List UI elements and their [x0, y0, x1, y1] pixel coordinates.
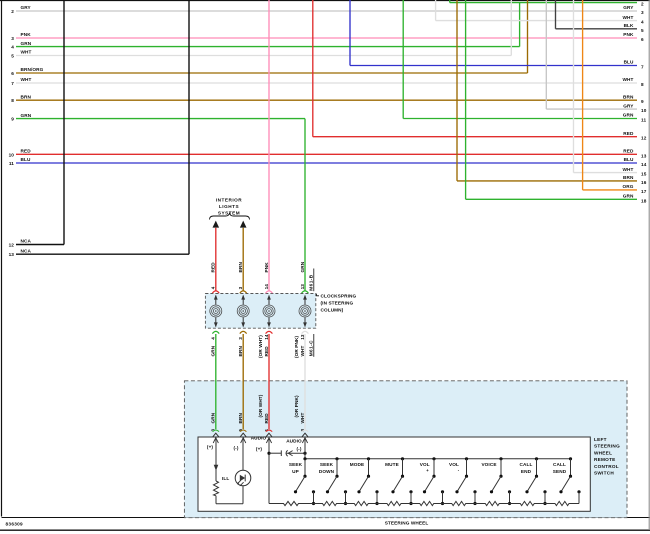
svg-text:VOICE: VOICE — [481, 462, 496, 467]
svg-text:5: 5 — [641, 28, 644, 33]
svg-text:BLU: BLU — [624, 157, 634, 162]
svg-text:GRN: GRN — [21, 41, 32, 46]
svg-text:2: 2 — [11, 9, 14, 14]
svg-text:GRY: GRY — [623, 5, 634, 10]
svg-text:BRN: BRN — [238, 413, 243, 424]
svg-text:ORG: ORG — [623, 184, 634, 189]
svg-text:MUTE: MUTE — [385, 462, 399, 467]
svg-text:SEEK: SEEK — [320, 462, 334, 467]
svg-text:8: 8 — [641, 82, 644, 87]
svg-text:(OR PNK): (OR PNK) — [294, 395, 299, 417]
svg-text:GRN: GRN — [21, 113, 32, 118]
svg-text:8: 8 — [11, 98, 14, 103]
svg-text:(OR PNK): (OR PNK) — [294, 336, 299, 358]
svg-text:836309: 836309 — [6, 521, 24, 526]
svg-text:GRY: GRY — [623, 103, 634, 108]
svg-text:10: 10 — [641, 108, 647, 113]
svg-text:(-): (-) — [234, 445, 239, 450]
svg-text:BRN/ORG: BRN/ORG — [21, 67, 44, 72]
svg-text:11: 11 — [641, 118, 646, 123]
svg-text:PNK: PNK — [623, 32, 634, 37]
svg-text:3: 3 — [238, 337, 243, 340]
svg-text:2: 2 — [641, 2, 644, 7]
svg-text:BLK: BLK — [624, 23, 634, 28]
svg-text:BRN: BRN — [21, 94, 32, 99]
svg-text:3: 3 — [238, 286, 243, 289]
svg-text:VOL: VOL — [420, 462, 430, 467]
svg-text:STEERING: STEERING — [594, 444, 620, 449]
svg-text:(OR WHT): (OR WHT) — [258, 335, 263, 358]
svg-text:CALL: CALL — [553, 462, 566, 467]
svg-text:GRN: GRN — [211, 345, 216, 356]
svg-text:4: 4 — [11, 45, 14, 50]
svg-text:3: 3 — [641, 10, 644, 15]
svg-text:(OR WHT): (OR WHT) — [258, 394, 263, 417]
svg-text:WHT: WHT — [300, 345, 305, 356]
svg-text:9: 9 — [641, 99, 644, 104]
svg-text:BLU: BLU — [624, 60, 634, 65]
svg-text:(+): (+) — [256, 446, 262, 451]
svg-text:DOWN: DOWN — [319, 469, 335, 474]
svg-text:RED: RED — [623, 131, 634, 136]
svg-text:RED: RED — [623, 149, 634, 154]
svg-text:WHT: WHT — [300, 412, 305, 423]
svg-text:14: 14 — [641, 162, 647, 167]
svg-text:WHT: WHT — [623, 167, 634, 172]
svg-text:REMOTE: REMOTE — [594, 457, 616, 462]
svg-text:RED: RED — [264, 413, 269, 424]
svg-text:GRY: GRY — [21, 5, 32, 10]
svg-text:ILL: ILL — [222, 476, 229, 481]
svg-text:16: 16 — [641, 180, 647, 185]
svg-text:5: 5 — [11, 54, 14, 59]
svg-text:12: 12 — [641, 136, 647, 141]
svg-text:GRN: GRN — [623, 113, 634, 118]
svg-text:BRN: BRN — [623, 175, 634, 180]
svg-text:3: 3 — [11, 36, 14, 41]
svg-text:END: END — [521, 469, 532, 474]
svg-text:PNK: PNK — [21, 32, 32, 37]
svg-text:PNK: PNK — [264, 262, 269, 273]
svg-text:CALL: CALL — [520, 462, 533, 467]
svg-text:UP: UP — [292, 469, 299, 474]
svg-text:M61-B: M61-B — [309, 274, 314, 290]
svg-text:AUDIO: AUDIO — [286, 439, 302, 444]
svg-text:NCA: NCA — [21, 248, 32, 253]
svg-text:GRN: GRN — [300, 261, 305, 272]
svg-text:11: 11 — [9, 161, 14, 166]
svg-text:SEEK: SEEK — [289, 462, 303, 467]
svg-text:WHT: WHT — [21, 77, 32, 82]
svg-text:WHEEL: WHEEL — [594, 450, 612, 455]
svg-text:COLUMN): COLUMN) — [321, 308, 344, 313]
svg-text:15: 15 — [641, 172, 647, 177]
svg-text:BRN: BRN — [238, 262, 243, 273]
svg-text:CONTROL: CONTROL — [594, 464, 619, 469]
svg-text:(IN STEERING: (IN STEERING — [321, 301, 354, 306]
svg-text:14: 14 — [264, 334, 269, 340]
svg-text:BLU: BLU — [21, 157, 31, 162]
svg-text:MODE: MODE — [350, 462, 364, 467]
svg-text:LIGHTS: LIGHTS — [219, 204, 239, 209]
svg-text:RED: RED — [21, 149, 32, 154]
svg-text:12: 12 — [9, 243, 15, 248]
svg-text:SWITCH: SWITCH — [594, 471, 614, 476]
svg-text:AUDIO: AUDIO — [251, 436, 267, 441]
svg-text:SEND: SEND — [553, 469, 567, 474]
svg-text:+: + — [426, 468, 429, 473]
svg-text:13: 13 — [641, 153, 647, 158]
svg-text:STEERING WHEEL: STEERING WHEEL — [385, 520, 429, 525]
svg-text:4: 4 — [641, 20, 644, 25]
svg-text:INTERIOR: INTERIOR — [216, 198, 243, 203]
svg-text:LEFT: LEFT — [594, 437, 607, 442]
svg-text:WHT: WHT — [623, 77, 634, 82]
svg-text:WHT: WHT — [623, 15, 634, 20]
svg-text:7: 7 — [641, 65, 644, 70]
svg-text:7: 7 — [11, 81, 14, 86]
svg-text:4: 4 — [211, 286, 216, 289]
svg-text:14: 14 — [264, 284, 269, 290]
svg-text:18: 18 — [641, 198, 647, 203]
svg-text:CLOCKSPRING: CLOCKSPRING — [321, 294, 357, 299]
svg-text:6: 6 — [11, 71, 14, 76]
svg-text:13: 13 — [9, 252, 15, 257]
svg-text:WHT: WHT — [21, 50, 32, 55]
svg-text:13: 13 — [300, 284, 305, 290]
svg-text:RED: RED — [211, 262, 216, 273]
svg-text:13: 13 — [300, 334, 305, 340]
svg-text:17: 17 — [641, 189, 647, 194]
svg-text:6: 6 — [641, 37, 644, 42]
svg-text:4: 4 — [211, 337, 216, 340]
svg-text:(+): (+) — [207, 444, 213, 449]
svg-text:10: 10 — [9, 152, 15, 157]
svg-text:9: 9 — [11, 117, 14, 122]
svg-text:GRN: GRN — [211, 412, 216, 423]
svg-text:VOL: VOL — [449, 462, 459, 467]
svg-text:NCA: NCA — [21, 239, 32, 244]
svg-text:(-): (-) — [297, 446, 302, 451]
svg-text:BRN: BRN — [623, 94, 634, 99]
svg-text:BRN: BRN — [238, 346, 243, 357]
svg-text:GRN: GRN — [623, 194, 634, 199]
svg-text:RED: RED — [264, 346, 269, 357]
svg-text:M61-C: M61-C — [309, 340, 314, 356]
